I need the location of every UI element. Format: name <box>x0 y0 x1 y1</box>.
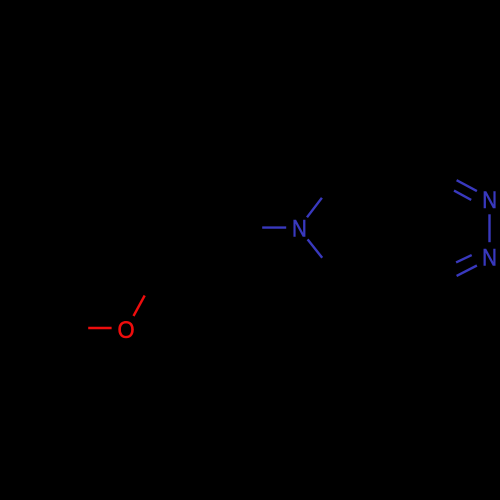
bond N6-C5 black half <box>322 169 345 198</box>
bond CH3-CH2 (ethyl) <box>28 328 50 332</box>
bond C4=N3 blue half (inner) <box>456 255 472 262</box>
bond C1=N2 blue half (main) <box>457 180 477 191</box>
bond C4=N3 black half (inner) <box>428 262 456 279</box>
bond N6-C7 blue half <box>308 239 323 257</box>
svg-text:O: O <box>117 317 134 344</box>
bond O-C2' red half <box>134 296 145 317</box>
bond C4=N3 black half (main) <box>423 276 457 292</box>
bond C4=N3 blue half (main) <box>457 266 477 276</box>
bond C1'-N6 black half <box>225 226 262 228</box>
bond C1=N2 blue half (inner) <box>454 191 471 200</box>
bond C7a-C1 <box>404 164 424 190</box>
bond C1'-N6 blue half <box>262 226 286 228</box>
bond C5-C7a <box>345 169 404 190</box>
bond O-C2' black half <box>145 261 164 295</box>
bond N6-C7 black half <box>322 258 345 288</box>
bond N2-N3 (vertical) <box>488 214 490 242</box>
bond N6-C5 blue half <box>307 198 322 218</box>
bond C4a-C4 <box>404 266 423 292</box>
bond C7a-C4a (fused) <box>403 190 405 266</box>
svg-text:N: N <box>482 187 497 214</box>
bond C1=N2 black half (inner) <box>428 176 454 191</box>
svg-text:N: N <box>292 216 307 243</box>
svg-text:N: N <box>482 245 497 272</box>
bond O-CH2 red half <box>88 327 111 329</box>
bond C1=N2 black half (main) <box>424 164 457 180</box>
bond CH2-O black half <box>50 327 88 329</box>
bond C2'-C1' <box>163 228 225 262</box>
bond C7-C4a <box>345 266 404 288</box>
